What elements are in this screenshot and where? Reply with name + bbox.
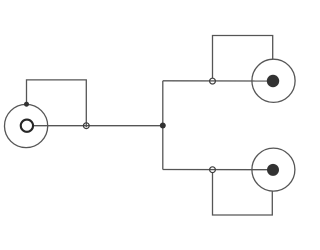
node: J1 shield tap dot xyxy=(24,102,29,107)
wire: bottom branch horizontal to P2 center pin xyxy=(163,169,268,171)
wire: main signal line from J1 pin to junction xyxy=(34,125,163,127)
connector P2 (bottom right plug) outer body xyxy=(252,148,295,191)
connector P2 center pin xyxy=(267,164,279,176)
wire: J1 shield loop (up, right, down to terminal ring T1) xyxy=(27,80,87,127)
wire: bottom branch vertical from junction xyxy=(162,126,164,170)
terminal ring T1 on main line xyxy=(83,123,89,129)
connector J1 center pin ring xyxy=(21,120,33,132)
wire: top branch horizontal to P1 center pin xyxy=(163,80,268,82)
connector P1 (top right plug) outer body xyxy=(252,59,295,102)
wire: bottom shield loop from T3 to P2 body xyxy=(213,173,273,216)
terminal ring T3 on bottom branch xyxy=(210,167,216,173)
junction node on main line xyxy=(160,123,166,129)
wire: top branch vertical from junction xyxy=(162,81,164,126)
connector P1 center pin xyxy=(267,75,279,87)
wire: top shield loop from T2 to P1 body xyxy=(213,36,273,79)
connector J1 (left jack) outer body xyxy=(5,104,48,147)
terminal ring T2 on top branch xyxy=(210,78,216,84)
